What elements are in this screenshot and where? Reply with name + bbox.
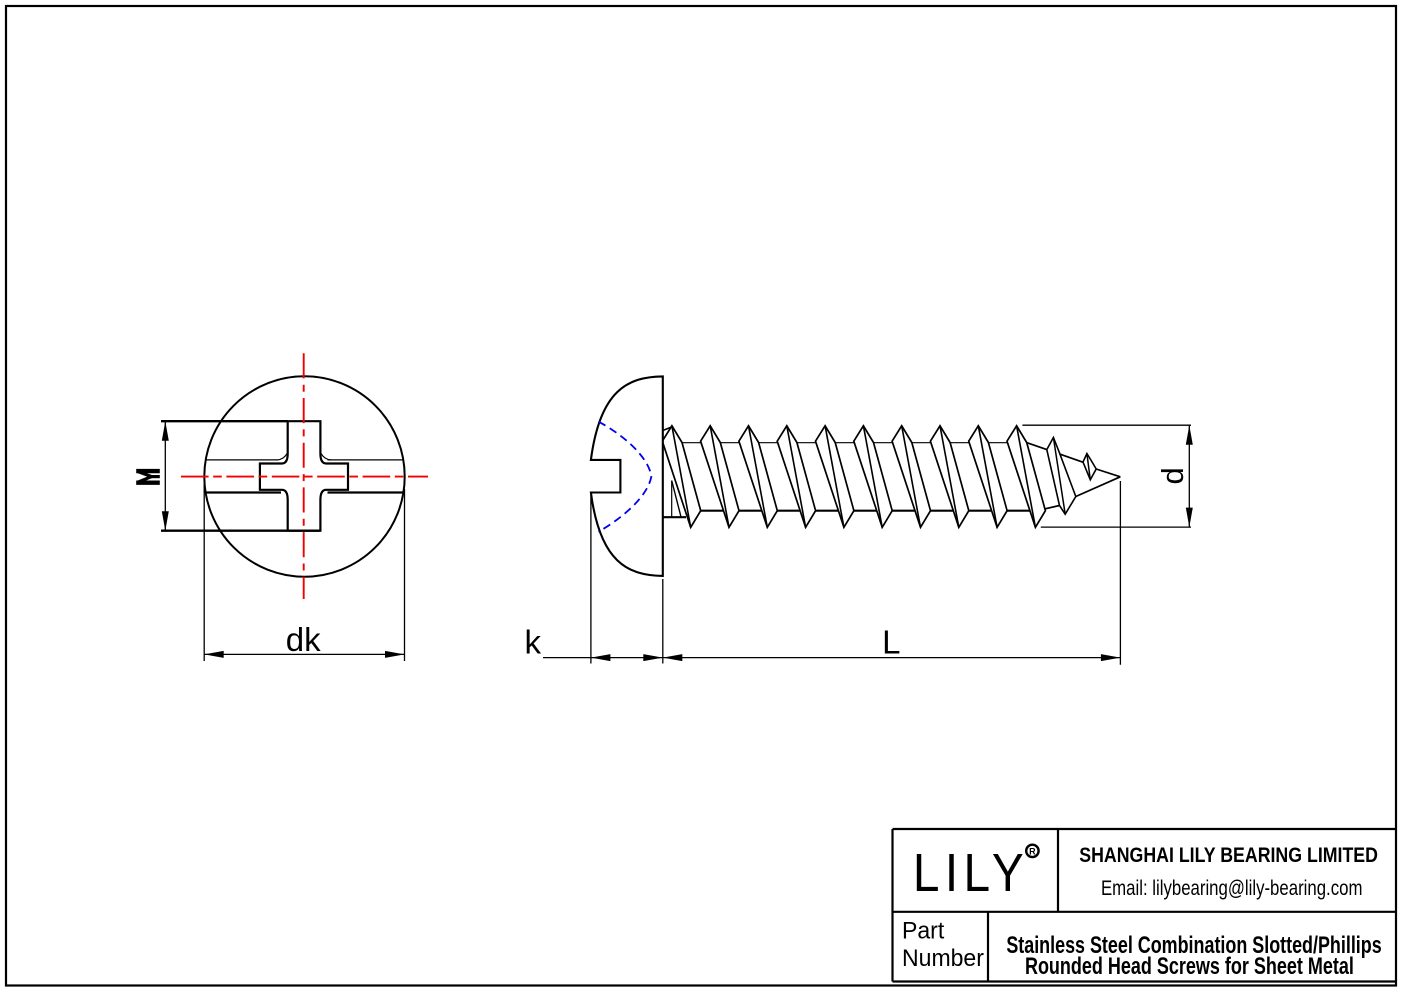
thread blade 6	[854, 426, 892, 528]
dk dimension line	[204, 653, 404, 655]
M dimension arrow down	[162, 511, 169, 531]
dk dimension arrow right	[385, 651, 405, 658]
thread blade 9	[969, 426, 1007, 528]
screw tip cone upper silhouette segment 2	[1058, 454, 1083, 463]
tip thread blade A	[1047, 438, 1076, 515]
thread blade 4	[777, 426, 815, 528]
svg-text:Rounded Head Screws for Sheet: Rounded Head Screws for Sheet Metal	[1025, 954, 1354, 980]
svg-text:LILY: LILY	[913, 843, 1029, 903]
slot upper edge hook into fillet right	[321, 454, 331, 460]
screw tip cone lower silhouette segment 1	[1045, 506, 1059, 509]
title block top border	[893, 828, 1397, 830]
M dimension line	[164, 421, 166, 531]
slot upper edge hook into fillet left	[277, 454, 287, 460]
thread blade 7	[892, 426, 930, 528]
svg-text:SHANGHAI LILY BEARING LIMITED: SHANGHAI LILY BEARING LIMITED	[1079, 844, 1378, 868]
L dimension extension line right	[1119, 481, 1121, 665]
hidden phillips recess blue dashed curve	[599, 422, 652, 532]
screw tip cone upper silhouette segment 3	[1096, 469, 1120, 477]
k dimension arrow left	[591, 654, 611, 661]
L dimension arrow right	[1101, 654, 1121, 661]
svg-text:L: L	[882, 624, 900, 661]
slot upper edge line right segment	[328, 459, 404, 461]
title block row divider	[893, 911, 1397, 913]
svg-text:Part: Part	[902, 917, 945, 944]
L dimension arrow left	[663, 654, 683, 661]
d dimension arrow up	[1186, 425, 1193, 445]
title block logo divider	[1057, 829, 1059, 912]
M dimension arrow up	[162, 421, 169, 441]
svg-text:k: k	[525, 623, 542, 660]
d dimension label	[1155, 467, 1190, 484]
thread start vertical line	[671, 481, 673, 517]
red vertical centerline	[303, 353, 305, 599]
title block part number divider	[987, 912, 989, 982]
thread blade 3	[739, 426, 777, 528]
thread blade 1	[662, 426, 700, 528]
thread runout bottom line at head	[663, 516, 686, 518]
M dimension extension line top	[161, 420, 288, 422]
svg-text:Email: lilybearing@lily-bearin: Email: lilybearing@lily-bearing.com	[1101, 877, 1362, 900]
registered trademark circle	[1026, 845, 1038, 857]
thread blade 8	[930, 426, 968, 528]
dk dimension extension line left	[203, 484, 205, 661]
d dimension extension line top	[1022, 424, 1191, 426]
title block bottom border	[893, 980, 1397, 982]
screw tip cone upper silhouette segment 1	[1027, 443, 1047, 450]
screw head outline circle (front view)	[204, 376, 404, 576]
dk dimension arrow left	[204, 651, 224, 658]
svg-text:dk: dk	[286, 621, 321, 658]
k dimension extension line right	[662, 579, 664, 664]
tip thread blade B	[1083, 454, 1096, 480]
thread blade 10	[1007, 426, 1045, 528]
thread crest runout line at head top	[663, 427, 672, 431]
red horizontal centerline	[181, 476, 428, 478]
k dimension extension line left	[590, 495, 592, 664]
k dimension arrow right	[643, 654, 663, 661]
dk dimension extension line right	[404, 489, 406, 661]
thread blade 2	[701, 426, 739, 528]
thread bottom root line	[689, 510, 1040, 512]
thread start slant line	[672, 481, 681, 517]
d dimension line	[1188, 425, 1190, 527]
slot lower edge line right segment	[328, 491, 404, 493]
slot lower edge line left segment	[206, 491, 281, 493]
M dimension label	[136, 471, 160, 483]
slot upper edge line left segment	[206, 459, 278, 461]
thread top root line	[664, 442, 1027, 444]
d dimension arrow down	[1186, 508, 1193, 528]
screw tip cone lower silhouette segment 2	[1076, 477, 1121, 497]
k and L dimension line	[543, 657, 1120, 659]
svg-text:R: R	[1029, 846, 1036, 856]
thread blade 5	[816, 426, 854, 528]
d dimension extension line bottom	[1041, 526, 1191, 528]
title block left border	[891, 829, 893, 982]
phillips cross recess outline	[260, 421, 348, 531]
M dimension extension line bottom	[161, 530, 320, 532]
svg-text:d: d	[1155, 467, 1190, 484]
screw head outline (side view) with slot notch	[591, 376, 663, 576]
svg-text:Number: Number	[902, 944, 984, 971]
